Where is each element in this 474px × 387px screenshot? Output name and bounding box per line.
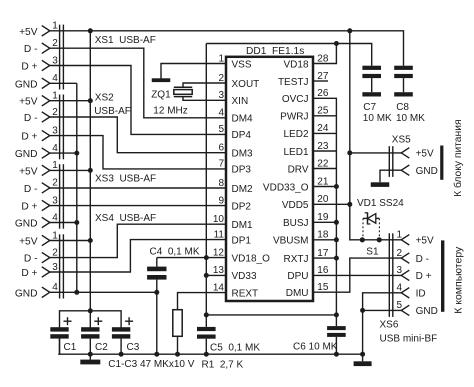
svg-text:15: 15 (317, 282, 329, 293)
crystal ZQ1 (174, 87, 192, 96)
svg-text:D -: D - (24, 44, 38, 55)
node VDD33_O (334, 184, 339, 189)
svg-text:14: 14 (213, 282, 225, 293)
node rail R1 (175, 352, 180, 357)
svg-text:24: 24 (317, 123, 329, 134)
svg-text:2: 2 (52, 247, 58, 258)
wire XOUT to ZQ1 (183, 83, 226, 87)
node +5V XS4 (88, 238, 93, 243)
svg-text:26: 26 (317, 88, 329, 99)
svg-text:11: 11 (214, 229, 225, 240)
svg-text:GND: GND (416, 166, 438, 177)
connector XS3 pin 1 (+5V) (19, 160, 58, 177)
node XS4 GND / C4 (154, 290, 159, 295)
svg-text:ZQ1: ZQ1 (151, 90, 171, 101)
wire VD33 pin13 stub (206, 274, 226, 276)
svg-text:28: 28 (317, 53, 329, 64)
pin 13 VD33 (213, 265, 257, 282)
wire XIN to ZQ1 (183, 97, 226, 101)
bracket computer (441, 240, 444, 311)
wire VDD33_O (313, 186, 336, 188)
svg-text:D +: D + (21, 268, 37, 279)
wire XS6 GND (363, 309, 402, 311)
ground (C7) (362, 92, 381, 96)
label R1 (202, 359, 244, 370)
wire C1 corner (59, 338, 61, 354)
svg-text:25: 25 (317, 106, 329, 117)
connector XS6 pin 2 (D -) (396, 248, 429, 265)
svg-text:R1 2,7 K: R1 2,7 K (202, 359, 244, 370)
svg-text:D -: D - (24, 254, 38, 265)
svg-text:DM2: DM2 (232, 184, 254, 195)
svg-text:3: 3 (218, 90, 224, 101)
wire XS2 D+ to DP3 (50, 136, 226, 169)
node VD18_O (204, 255, 209, 260)
svg-text:+5V: +5V (416, 149, 434, 160)
ground (C8) (394, 92, 413, 96)
svg-text:7: 7 (218, 159, 224, 170)
svg-text:DP1: DP1 (232, 235, 252, 246)
wire DPU to XS6 D+ (313, 274, 402, 276)
svg-text:8: 8 (218, 178, 224, 189)
svg-text:27: 27 (317, 71, 329, 82)
label XS1 (95, 35, 156, 46)
capacitor C6 (327, 326, 346, 354)
svg-text:TESTJ: TESTJ (278, 77, 309, 88)
node GND XS4 (74, 290, 79, 295)
pin 12 VD18_O (213, 247, 270, 264)
svg-text:D -: D - (416, 254, 429, 265)
wire +5V rail XS1 to C8 (50, 31, 404, 66)
connector XS1 pin 1 (+5V) (19, 21, 58, 38)
connector XS5 body (389, 146, 393, 177)
dashed link VD1 anode (378, 218, 380, 238)
connector XS3 pin 4 (GND) (15, 212, 58, 229)
svg-text:LED1: LED1 (283, 147, 308, 158)
svg-text:1: 1 (396, 230, 402, 241)
connector XS4 pin 2 (D -) (24, 247, 58, 264)
svg-text:VSS: VSS (232, 59, 252, 70)
label XS5 (392, 135, 411, 146)
connector XS5 pin +5V (401, 148, 434, 160)
wire XS5 GND (380, 170, 402, 182)
svg-text:13: 13 (213, 265, 225, 276)
wire VD18_O pin12 row (157, 257, 226, 259)
wire BUSJ (313, 221, 336, 223)
svg-text:VD33: VD33 (232, 271, 257, 282)
svg-text:+5V: +5V (19, 237, 38, 248)
svg-text:XOUT: XOUT (232, 79, 260, 90)
label C7 (363, 102, 392, 124)
svg-text:XS5: XS5 (392, 135, 411, 146)
node rail C3 (119, 352, 124, 357)
svg-text:VBUSM: VBUSM (273, 236, 309, 247)
svg-text:20: 20 (317, 194, 329, 205)
svg-text:D +: D + (416, 271, 432, 282)
pin 5 DP4 (218, 124, 251, 141)
connector XS6 body (389, 233, 393, 317)
connector XS1 pin 3 (D +) (21, 55, 58, 72)
svg-text:+5V: +5V (19, 166, 38, 177)
connector XS6 pin 4 (ID) (396, 283, 425, 300)
pin 11 DP1 (214, 229, 252, 246)
node +5V XS5 junction (347, 150, 352, 155)
svg-text:9: 9 (218, 195, 224, 206)
svg-text:3: 3 (396, 265, 402, 276)
svg-text:DM3: DM3 (232, 149, 254, 160)
wire XS3 D+ to DP2 (50, 205, 226, 207)
connector XS1 body (60, 25, 64, 90)
pin 2 XOUT (218, 73, 259, 90)
connector XS1 pin 4 (GND) (15, 73, 58, 90)
pin 7 DP3 (218, 159, 251, 176)
svg-text:XS2: XS2 (95, 93, 114, 104)
wire XS2 D- to DM3 (50, 117, 226, 153)
connector XS3 pin 2 (D -) (24, 178, 58, 195)
connector XS4 pin 3 (D +) (21, 262, 58, 279)
node +5V XS3 (88, 168, 93, 173)
switch S1 contact A (360, 237, 365, 242)
IC DD1 FE1.1s body (226, 57, 313, 301)
connector XS6 pin 1 (+5V) (396, 230, 434, 247)
connector XS4 pin 1 (+5V) (19, 230, 58, 247)
svg-text:C1-C3 47 MKx10 V: C1-C3 47 MKx10 V (108, 359, 194, 370)
svg-text:D -: D - (24, 184, 38, 195)
connector XS6 pin 3 (D +) (396, 265, 431, 282)
node rail XS6 GND (360, 352, 365, 357)
wire VSS to ground (161, 64, 226, 79)
connector XS2 pin 3 (D +) (21, 125, 58, 142)
node rail C4 (154, 352, 159, 357)
svg-text:GND: GND (416, 306, 438, 317)
svg-text:S1: S1 (366, 247, 379, 258)
GND bus (vertical) (76, 83, 78, 292)
svg-text:D +: D + (21, 202, 37, 213)
svg-text:23: 23 (317, 141, 329, 152)
wire VD18_O / VD33 vertical (205, 44, 207, 327)
wire DMU to XS6 D- (313, 258, 402, 292)
pin 10 DM1 (213, 214, 253, 231)
svg-text:17: 17 (317, 248, 329, 259)
svg-text:GND: GND (15, 219, 38, 230)
wire XS3 GND (50, 222, 77, 224)
wire VBUSM (313, 239, 336, 241)
label C1 (64, 342, 77, 353)
svg-text:+5V: +5V (19, 97, 38, 108)
pin 28 VD18 (283, 53, 328, 70)
svg-text:VDD33_O: VDD33_O (263, 182, 309, 193)
svg-text:2: 2 (52, 178, 58, 189)
wire OVCJ to 3.3V vertical (313, 98, 336, 326)
diode VD1 SS24 (cathode left) (363, 212, 379, 224)
svg-text:DP2: DP2 (232, 201, 252, 212)
pin 8 DM2 (218, 178, 253, 195)
pin 20 VDD5 (282, 194, 329, 211)
svg-text:USB-AF: USB-AF (94, 106, 131, 117)
node VD33 (204, 273, 209, 278)
wire LED2 stub (313, 132, 336, 134)
wire C2 top stub (89, 311, 91, 328)
svg-text:3: 3 (52, 125, 58, 136)
pin 1 VSS (218, 53, 251, 70)
label XS4 (95, 213, 156, 224)
connector XS2 pin 4 (GND) (15, 143, 58, 160)
svg-text:1: 1 (52, 21, 58, 32)
capacitor C2 (81, 317, 102, 354)
wire XS4 D- to DM1 (50, 224, 226, 257)
svg-text:1: 1 (52, 160, 58, 171)
label C8 (396, 102, 425, 124)
pin 14 REXT (213, 282, 258, 299)
svg-text:DRV: DRV (288, 164, 309, 175)
node 3.3V row right (334, 312, 339, 317)
svg-text:C7: C7 (363, 102, 376, 113)
svg-text:3: 3 (52, 55, 58, 66)
node GND XS3 (74, 220, 79, 225)
connector XS2 pin 2 (D -) (24, 107, 58, 124)
wire XS4 GND to C4 bottom (50, 291, 157, 293)
svg-text:12: 12 (213, 247, 225, 258)
wire 3.3V row to C6 vertical (206, 314, 336, 316)
node +5V rail to XS5 branch (347, 28, 352, 33)
wire DRV stub (313, 168, 336, 170)
svg-text:ID: ID (416, 289, 426, 300)
node VD18 net (334, 41, 339, 46)
wire VD18 net (pin28/pin12/C7) (206, 44, 371, 66)
svg-text:+5V: +5V (416, 236, 434, 247)
svg-text:4: 4 (396, 283, 402, 294)
node rail C2 (88, 352, 93, 357)
pin 26 OVCJ (282, 88, 329, 105)
pin 16 DPU (287, 265, 328, 282)
wire XS5 +5V (350, 152, 402, 154)
node BUSJ (334, 220, 339, 225)
connector XS5 pin GND (401, 165, 438, 177)
pin 9 DP2 (218, 195, 251, 212)
svg-text:BUSJ: BUSJ (283, 218, 309, 229)
label VD1 SS24 (357, 198, 404, 209)
connector XS4 pin 4 (GND) (15, 282, 58, 299)
svg-text:GND: GND (15, 149, 38, 160)
svg-text:VDD5: VDD5 (282, 200, 309, 211)
svg-text:5: 5 (396, 300, 402, 311)
svg-text:USB mini-BF: USB mini-BF (380, 333, 438, 344)
node rail C6 (334, 352, 339, 357)
label C5 (210, 342, 260, 353)
node RXTJ (334, 256, 339, 261)
label C1-C3 values (108, 359, 194, 370)
label C3 (127, 342, 140, 353)
svg-text:C6 10 MK: C6 10 MK (293, 342, 338, 353)
svg-text:21: 21 (317, 176, 329, 187)
svg-text:VD1 SS24: VD1 SS24 (357, 198, 404, 209)
svg-text:GND: GND (15, 79, 38, 90)
ground (rail left) (80, 354, 100, 364)
node +5V XS1 (88, 28, 93, 33)
label to power supply (452, 119, 464, 196)
switch S1 contact B (377, 237, 382, 242)
svg-text:12 MHz: 12 MHz (153, 106, 187, 117)
dashed link VD1 cathode (362, 218, 364, 238)
svg-text:4: 4 (52, 282, 58, 293)
label S1 (366, 247, 379, 258)
svg-text:2: 2 (52, 107, 58, 118)
pin 19 BUSJ (283, 212, 329, 229)
pin 4 DM4 (218, 108, 253, 125)
resistor R1 (173, 293, 226, 355)
node VBUSM (334, 237, 339, 242)
svg-text:10 MK: 10 MK (363, 113, 392, 124)
svg-text:C2: C2 (95, 342, 108, 353)
svg-text:REXT: REXT (232, 288, 259, 299)
wire XS6 ID (363, 293, 402, 311)
capacitor C8 (394, 66, 413, 93)
svg-text:DD1 FE1.1s: DD1 FE1.1s (246, 46, 304, 57)
wire TESTJ stub (313, 80, 328, 82)
svg-text:22: 22 (317, 158, 329, 169)
svg-text:2: 2 (396, 248, 402, 259)
svg-text:6: 6 (218, 143, 224, 154)
svg-text:10 MK: 10 MK (396, 113, 425, 124)
wire XS2 +5V (50, 100, 91, 102)
wire PWRJ stub (313, 115, 336, 117)
label to computer (453, 246, 465, 314)
pin 24 LED2 (283, 123, 328, 140)
label XS6 (380, 320, 399, 331)
pin 23 LED1 (283, 141, 328, 158)
node 3.3V row left (204, 312, 209, 317)
svg-text:DMU: DMU (286, 288, 309, 299)
svg-text:3: 3 (52, 195, 58, 206)
connector XS1 pin 2 (D -) (24, 38, 58, 55)
svg-text:C8: C8 (396, 102, 409, 113)
capacitor C4 (147, 258, 166, 355)
svg-text:16: 16 (317, 265, 329, 276)
svg-text:4: 4 (218, 108, 224, 119)
+5V bus (vertical) (89, 31, 91, 311)
capacitor C1 (50, 317, 71, 354)
connector XS3 body (60, 164, 64, 229)
wire XS1 D+ to DP4 (50, 66, 226, 135)
svg-text:RXTJ: RXTJ (284, 254, 309, 265)
label C6 (293, 342, 338, 353)
pin 3 XIN (218, 90, 248, 107)
svg-text:DM1: DM1 (232, 220, 254, 231)
node VDD5 (347, 202, 352, 207)
capacitor C7 (362, 66, 381, 93)
wire XS2 GND (50, 152, 77, 154)
svg-text:D +: D + (21, 62, 37, 73)
svg-text:VD18_O: VD18_O (232, 253, 271, 264)
svg-text:4: 4 (52, 143, 58, 154)
svg-text:GND: GND (15, 288, 38, 299)
svg-text:DPU: DPU (287, 271, 308, 282)
svg-text:DP3: DP3 (232, 165, 252, 176)
svg-text:3: 3 (52, 262, 58, 273)
label DD1 FE1.1s (246, 46, 304, 57)
wire caps top rail (60, 311, 122, 328)
svg-text:XIN: XIN (232, 96, 249, 107)
connector XS6 pin 5 (GND) (396, 300, 437, 317)
svg-text:К блоку питания: К блоку питания (452, 119, 464, 196)
wire XS3 +5V (50, 169, 91, 171)
wire RXTJ (313, 257, 336, 259)
label ZQ1 (151, 90, 171, 101)
svg-text:XS4 USB-AF: XS4 USB-AF (95, 213, 156, 224)
svg-text:К компьютеру: К компьютеру (453, 246, 465, 314)
svg-text:1: 1 (218, 53, 224, 64)
capacitor C3 (112, 317, 133, 354)
connector XS4 body (60, 234, 64, 298)
svg-text:D +: D + (21, 132, 37, 143)
connector XS3 pin 3 (D +) (21, 195, 58, 212)
pin 18 VBUSM (273, 230, 329, 247)
pin 27 TESTJ (278, 71, 329, 88)
svg-text:OVCJ: OVCJ (282, 94, 309, 105)
svg-text:2: 2 (52, 38, 58, 49)
svg-text:4: 4 (52, 73, 58, 84)
bracket power (440, 146, 443, 180)
label 12 MHz (153, 106, 187, 117)
svg-text:C5 0,1 MK: C5 0,1 MK (210, 342, 260, 353)
svg-text:XS3 USB-AF: XS3 USB-AF (95, 174, 156, 185)
wire XS1 GND (50, 82, 77, 84)
label USB mini-BF (380, 333, 438, 344)
pin 21 VDD33_O (263, 176, 329, 193)
svg-text:LED2: LED2 (283, 129, 308, 140)
node +5V XS2 (88, 98, 93, 103)
label XS2 (94, 93, 131, 117)
pin 6 DM3 (218, 143, 253, 160)
svg-text:4: 4 (52, 212, 58, 223)
wire XS1 D- to DM4 (50, 48, 226, 118)
svg-text:19: 19 (317, 212, 329, 223)
wire LED1 stub (313, 150, 336, 152)
wire VDD5 to +5V (313, 203, 350, 205)
svg-text:XS6: XS6 (380, 320, 399, 331)
connector XS2 body (60, 95, 64, 160)
pin 22 DRV (288, 158, 329, 175)
svg-text:1: 1 (52, 230, 58, 241)
svg-text:DM4: DM4 (232, 114, 254, 125)
node GND XS2 (74, 151, 79, 156)
svg-text:10: 10 (213, 214, 225, 225)
svg-text:1: 1 (52, 91, 58, 102)
svg-text:2: 2 (218, 73, 224, 84)
ground (VSS) (152, 78, 171, 82)
label XS3 (95, 174, 156, 185)
ground (rail right) (354, 354, 372, 366)
node XS6 GND (360, 308, 365, 313)
svg-text:DP4: DP4 (232, 130, 252, 141)
svg-text:18: 18 (317, 230, 329, 241)
svg-text:C3: C3 (127, 342, 140, 353)
svg-text:C4 0,1 MK: C4 0,1 MK (150, 246, 200, 257)
svg-text:+5V: +5V (19, 27, 38, 38)
svg-text:5: 5 (218, 124, 224, 135)
wire XS4 +5V (50, 240, 91, 242)
pin 25 PWRJ (280, 106, 329, 123)
wire XS3 D- to DM2 (50, 187, 226, 189)
wire XS4 D+ to DP1 (50, 240, 226, 272)
capacitor C5 (197, 327, 216, 354)
svg-text:XS1 USB-AF: XS1 USB-AF (95, 35, 156, 46)
svg-text:C1: C1 (64, 342, 77, 353)
wire XS6 GND down to rail (362, 310, 364, 354)
node +5V caps rail (88, 308, 93, 313)
label C4 (150, 246, 200, 257)
svg-text:D -: D - (24, 113, 38, 124)
